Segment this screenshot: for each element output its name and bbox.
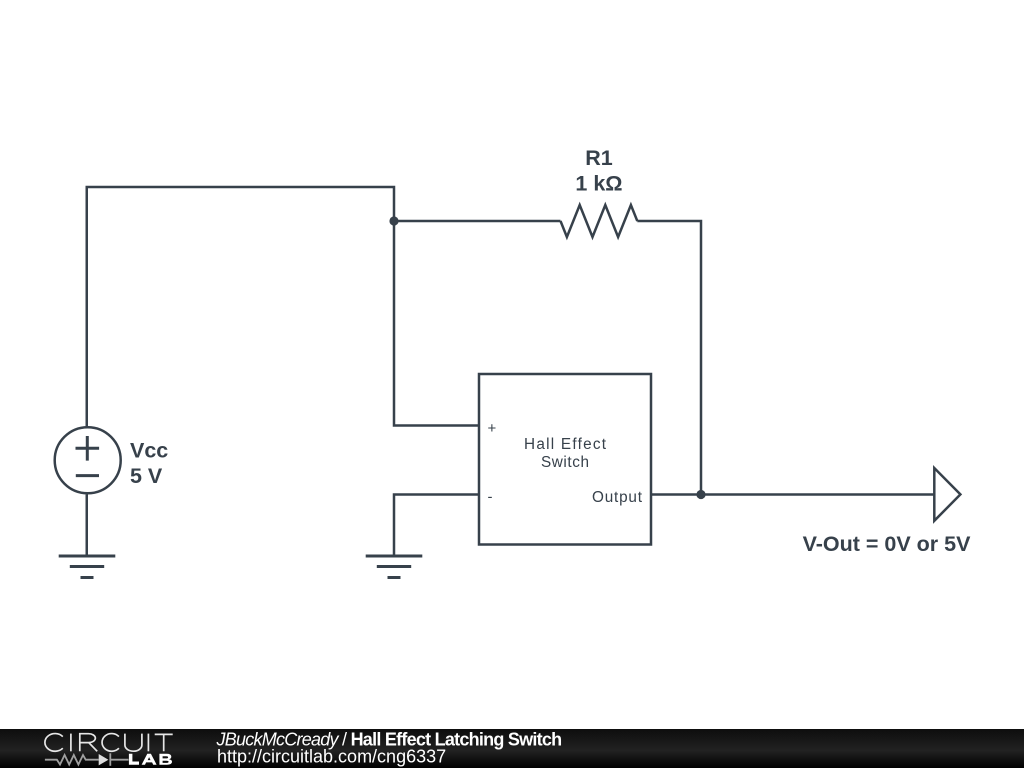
voltage source V1 minus sign	[76, 474, 99, 477]
logo LAB wordmark (drawn letters)	[129, 754, 172, 765]
node B junction dot	[696, 490, 705, 499]
svg-text:R1: R1	[585, 146, 613, 170]
svg-text:5 V: 5 V	[130, 464, 163, 488]
svg-text:Vcc: Vcc	[130, 439, 168, 463]
svg-text:http://circuitlab.com/cng6337: http://circuitlab.com/cng6337	[217, 747, 446, 767]
ground GND2	[366, 556, 423, 578]
svg-text:V-Out = 0V or 5V: V-Out = 0V or 5V	[803, 532, 972, 556]
logo resistor-diode squiggle	[45, 753, 129, 766]
wire: V1 plus terminal up, along top rail, down node A vertical, into U1 plus input	[87, 187, 479, 427]
logo diode triangle	[99, 754, 109, 765]
resistor R1	[561, 205, 638, 237]
svg-text:-: -	[488, 489, 493, 506]
svg-text:1 kΩ: 1 kΩ	[575, 172, 622, 196]
hall effect switch U1 box	[479, 374, 651, 545]
voltage source V1 circle	[55, 427, 121, 493]
output arrow terminal	[934, 468, 960, 521]
voltage source V1 plus sign	[76, 436, 100, 461]
wire: R1 right lead to corner then down to output node B	[637, 221, 701, 495]
svg-text:Switch: Switch	[541, 454, 589, 471]
svg-text:Output: Output	[592, 489, 643, 506]
banner bar	[0, 729, 1024, 768]
svg-text:+: +	[488, 420, 497, 437]
wire: U1 minus input left then down to ground GND2	[394, 495, 479, 557]
wire: node A to resistor R1 left lead	[394, 220, 561, 223]
ground GND1	[59, 556, 116, 578]
logo CIRCUIT wordmark (drawn letters)	[45, 734, 173, 752]
wire: V1 minus terminal down to ground GND1	[86, 495, 89, 557]
node A junction dot	[389, 216, 398, 225]
svg-text:Hall Effect: Hall Effect	[524, 436, 607, 453]
wire: U1 output to node B and to arrow terminal	[651, 493, 934, 496]
